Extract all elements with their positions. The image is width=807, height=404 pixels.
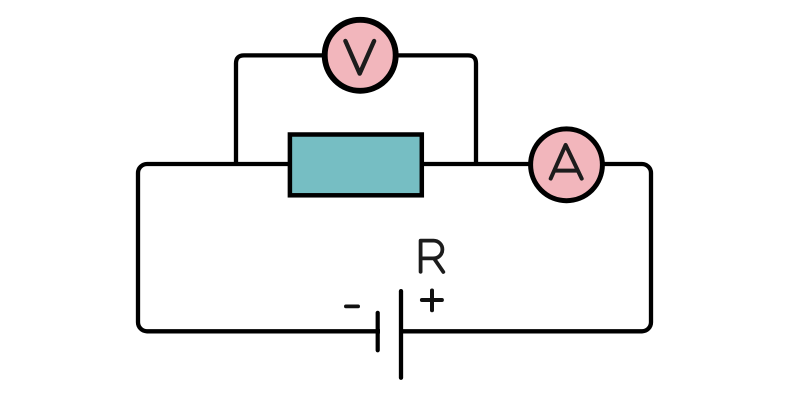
resistor value label R (421, 241, 444, 272)
voltmeter U1 (325, 20, 396, 91)
wire voltmeter branch (236, 55, 476, 164)
ammeter U2 (531, 129, 603, 201)
wire main loop (138, 164, 651, 331)
battery minus label (346, 304, 358, 308)
resistor R1 (290, 135, 422, 196)
ammeter label A (551, 145, 582, 179)
voltmeter label V (345, 41, 374, 74)
battery B1 positive plate (399, 291, 403, 378)
battery gap mask (380, 326, 399, 337)
battery plus label (422, 291, 442, 311)
battery B1 negative plate (376, 313, 380, 351)
